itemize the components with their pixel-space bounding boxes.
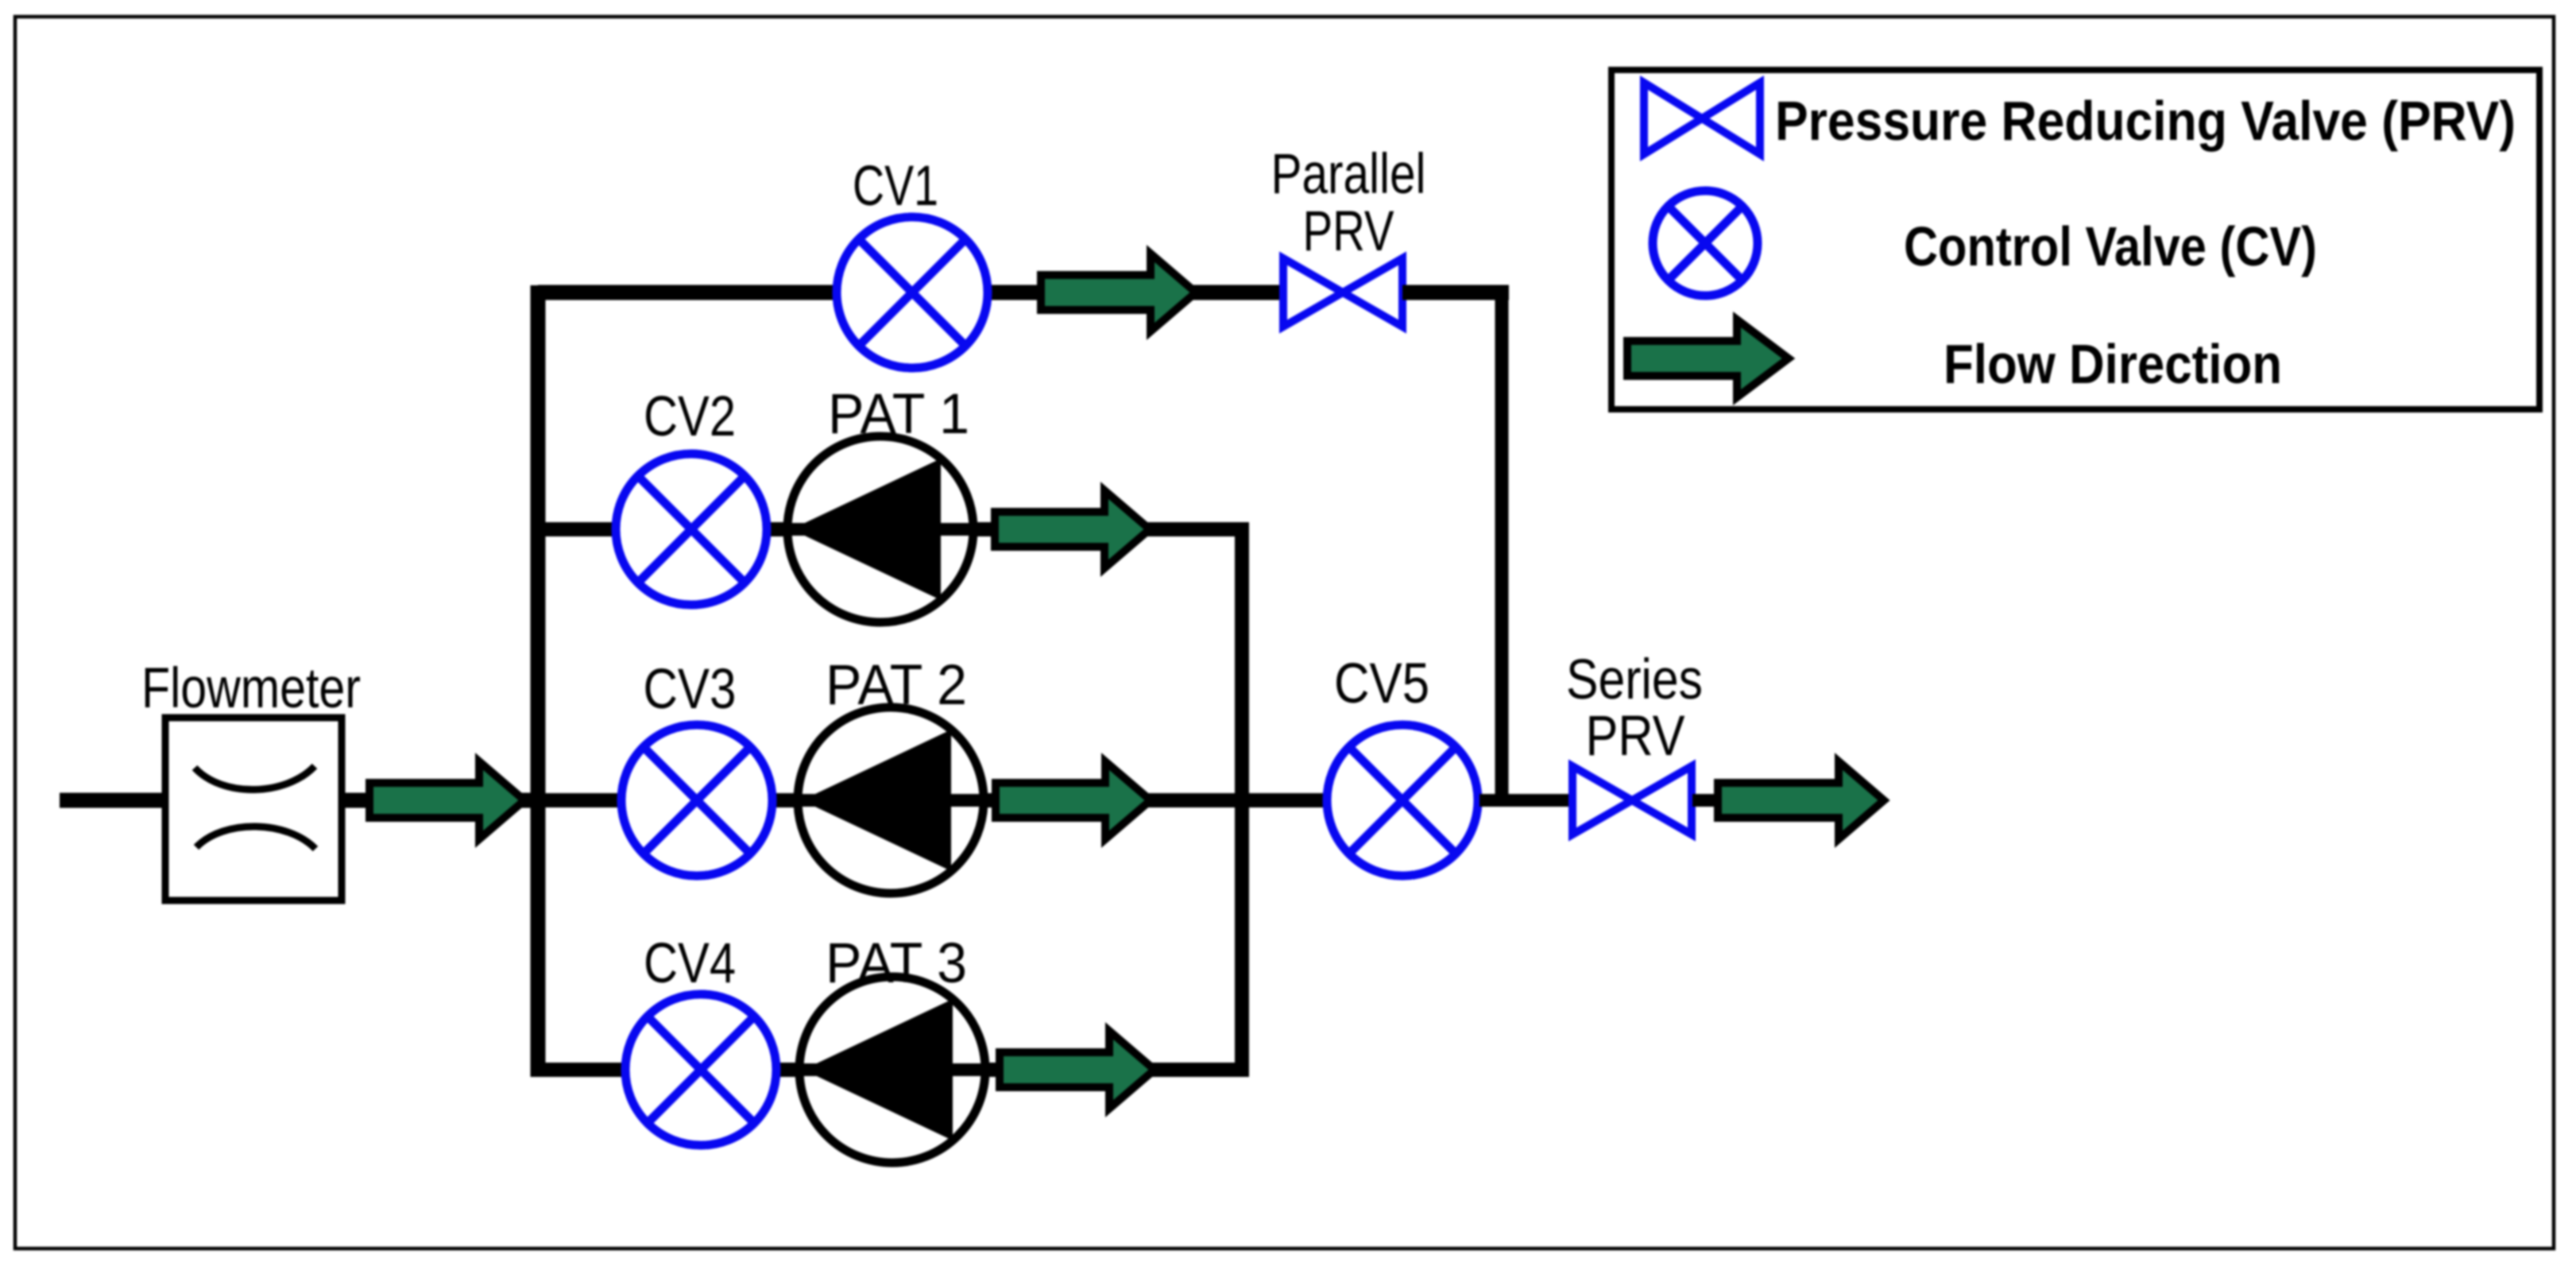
legend valve PRV symbol bbox=[1644, 83, 1760, 154]
control valve CV5 bbox=[1327, 725, 1478, 876]
svg-text:Pressure Reducing Valve (PRV): Pressure Reducing Valve (PRV) bbox=[1775, 90, 2516, 152]
svg-text:Flow Direction: Flow Direction bbox=[1944, 333, 2282, 395]
svg-text:PAT 2: PAT 2 bbox=[826, 654, 967, 717]
svg-text:CV3: CV3 bbox=[644, 658, 737, 721]
pump as turbine PAT 3 bbox=[799, 977, 985, 1163]
valve Series PRV bbox=[1572, 766, 1692, 834]
wire branch1 horizontal bbox=[538, 285, 1283, 300]
svg-text:PAT 3: PAT 3 bbox=[826, 932, 967, 995]
legend flow arrow symbol bbox=[1627, 319, 1789, 397]
wire CV5 to series PRV bbox=[1479, 794, 1573, 807]
flow arrow input bbox=[369, 761, 524, 839]
wire down leg to main bbox=[1495, 292, 1509, 800]
wire branch3 main line bbox=[538, 793, 1325, 807]
pump as turbine PAT 1 bbox=[787, 436, 973, 622]
wire branch4 horizontal bbox=[538, 1063, 1249, 1077]
valve Parallel PRV bbox=[1283, 258, 1402, 327]
legend control valve symbol bbox=[1653, 191, 1758, 296]
wire PRV to output arrow bbox=[1692, 794, 1726, 807]
control valve CV3 bbox=[621, 725, 772, 876]
svg-text:CV5: CV5 bbox=[1334, 652, 1429, 715]
svg-text:CV2: CV2 bbox=[644, 385, 736, 448]
flowmeter bbox=[165, 718, 342, 900]
svg-text:PRV: PRV bbox=[1303, 200, 1394, 263]
flow arrow branch4 bbox=[1000, 1031, 1155, 1109]
svg-text:CV1: CV1 bbox=[853, 155, 938, 218]
wire PRV to down leg bbox=[1402, 285, 1509, 300]
control valve CV2 bbox=[616, 454, 767, 605]
svg-text:PAT 1: PAT 1 bbox=[828, 383, 969, 446]
flow arrow output bbox=[1718, 761, 1884, 839]
svg-text:Flowmeter: Flowmeter bbox=[141, 657, 361, 720]
flow arrow branch3 bbox=[996, 761, 1151, 839]
flow arrow branch1 bbox=[1041, 254, 1196, 331]
svg-text:Control Valve (CV): Control Valve (CV) bbox=[1904, 215, 2317, 277]
pump as turbine PAT 2 bbox=[798, 707, 984, 893]
control valve CV4 bbox=[625, 994, 776, 1145]
control valve CV1 bbox=[837, 217, 988, 368]
svg-text:Parallel: Parallel bbox=[1271, 143, 1426, 206]
wire right manifold bbox=[1235, 529, 1249, 1077]
legend box bbox=[1611, 70, 2539, 409]
wire branch2 horizontal bbox=[538, 522, 1249, 536]
svg-text:PRV: PRV bbox=[1586, 705, 1686, 768]
wire input line bbox=[60, 793, 165, 808]
flow arrow branch2 bbox=[995, 490, 1150, 568]
svg-text:CV4: CV4 bbox=[644, 932, 736, 995]
wire left manifold bbox=[531, 285, 546, 1077]
svg-text:Series: Series bbox=[1566, 649, 1703, 711]
wire flowmeter to manifold bbox=[342, 793, 545, 808]
